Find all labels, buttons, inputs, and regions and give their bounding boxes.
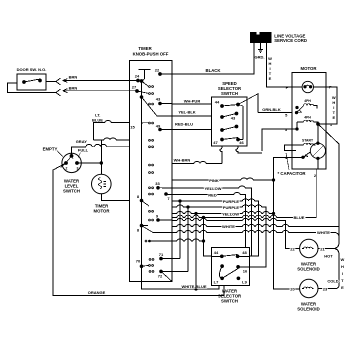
svg-text:BLUE: BLUE: [294, 215, 305, 220]
svg-text:46: 46: [239, 140, 244, 145]
svg-text:BRN: BRN: [69, 75, 78, 80]
svg-text:HOT: HOT: [324, 254, 333, 259]
svg-text:COLD: COLD: [327, 279, 338, 284]
svg-text:E: E: [269, 76, 272, 81]
svg-text:MOTOR: MOTOR: [301, 66, 318, 71]
svg-text:70: 70: [136, 259, 141, 264]
svg-text:SERVICE CORD: SERVICE CORD: [274, 38, 307, 43]
svg-text:WHITE-BLUE: WHITE-BLUE: [181, 284, 206, 289]
svg-text:5: 5: [285, 112, 288, 117]
svg-text:1: 1: [72, 156, 74, 160]
svg-text:3: 3: [77, 167, 79, 171]
svg-text:9: 9: [156, 214, 159, 219]
svg-text:BRN: BRN: [69, 85, 78, 90]
svg-text:4PH: 4PH: [304, 116, 311, 120]
svg-text:L9: L9: [242, 280, 247, 285]
svg-text:E: E: [341, 285, 344, 290]
svg-text:P: P: [286, 85, 289, 90]
svg-text:GRD.: GRD.: [255, 55, 265, 60]
svg-text:SWITCH: SWITCH: [221, 91, 238, 96]
svg-text:TIMER: TIMER: [138, 46, 152, 51]
svg-text:T: T: [341, 278, 344, 283]
svg-text:YEL-BLK: YEL-BLK: [178, 110, 195, 115]
svg-text:71: 71: [159, 252, 164, 257]
svg-text:PURPLE: PURPLE: [223, 205, 240, 210]
svg-text:I: I: [342, 271, 343, 276]
svg-text:PINK: PINK: [209, 178, 219, 183]
svg-text:43: 43: [156, 97, 161, 102]
svg-text:22: 22: [155, 68, 160, 73]
svg-text:23: 23: [323, 286, 328, 291]
svg-text:SWITCH: SWITCH: [221, 299, 238, 304]
svg-text:33: 33: [155, 181, 160, 186]
svg-text:BLACK: BLACK: [205, 68, 221, 73]
svg-text:E: E: [332, 115, 335, 120]
svg-text:RED-BLU: RED-BLU: [175, 122, 193, 127]
svg-text:4PH: 4PH: [304, 99, 311, 103]
svg-text:BLUE: BLUE: [92, 118, 103, 123]
svg-text:ORANGE: ORANGE: [88, 290, 106, 295]
svg-text:8: 8: [137, 228, 140, 233]
svg-text:H: H: [341, 264, 344, 269]
svg-text:8: 8: [137, 194, 140, 199]
svg-text:YELLOW: YELLOW: [204, 186, 221, 191]
svg-text:EMPTY: EMPTY: [43, 147, 58, 152]
svg-text:43: 43: [231, 116, 236, 121]
svg-text:24: 24: [135, 74, 140, 79]
svg-text:SOLENOID: SOLENOID: [297, 266, 319, 271]
svg-text:16: 16: [243, 268, 248, 273]
svg-text:WHITE: WHITE: [222, 224, 235, 229]
svg-text:WH-BRN: WH-BRN: [174, 158, 191, 163]
svg-text:7: 7: [167, 196, 170, 201]
svg-text:72: 72: [158, 274, 163, 279]
svg-text:PURPLE: PURPLE: [223, 199, 240, 204]
svg-text:W: W: [341, 257, 345, 262]
svg-text:47: 47: [213, 140, 218, 145]
svg-text:ORN-BLK: ORN-BLK: [262, 107, 281, 112]
svg-text:3: 3: [285, 127, 288, 132]
svg-text:2: 2: [66, 167, 68, 171]
svg-text:FULL: FULL: [78, 148, 89, 153]
svg-text:P: P: [329, 85, 332, 90]
svg-text:15: 15: [130, 125, 135, 130]
svg-text:YELLOW: YELLOW: [222, 211, 239, 216]
svg-text:27: 27: [132, 85, 137, 90]
svg-text:1: 1: [330, 122, 333, 127]
svg-text:RED: RED: [208, 192, 217, 197]
svg-text:L7: L7: [214, 280, 219, 285]
svg-text:WH-PUR: WH-PUR: [184, 99, 201, 104]
svg-text:20: 20: [290, 286, 295, 291]
svg-text:44: 44: [214, 250, 219, 255]
svg-text:GRAY: GRAY: [76, 139, 88, 144]
svg-text:SOLENOID: SOLENOID: [297, 306, 319, 311]
svg-text:SWITCH: SWITCH: [63, 189, 80, 194]
svg-text:22: 22: [290, 246, 295, 251]
svg-text:MOTOR: MOTOR: [94, 209, 111, 214]
svg-text:44: 44: [215, 100, 220, 105]
svg-text:START: START: [302, 139, 314, 143]
svg-text:21: 21: [320, 246, 325, 251]
svg-text:KNOB-PUSH OFF: KNOB-PUSH OFF: [133, 52, 169, 57]
svg-text:49: 49: [156, 124, 161, 129]
svg-text:DOOR SW. N.O.: DOOR SW. N.O.: [17, 67, 47, 72]
svg-text:48: 48: [242, 250, 247, 255]
svg-text:* CAPACITOR: * CAPACITOR: [278, 171, 307, 176]
svg-text:WHITE: WHITE: [317, 230, 330, 235]
